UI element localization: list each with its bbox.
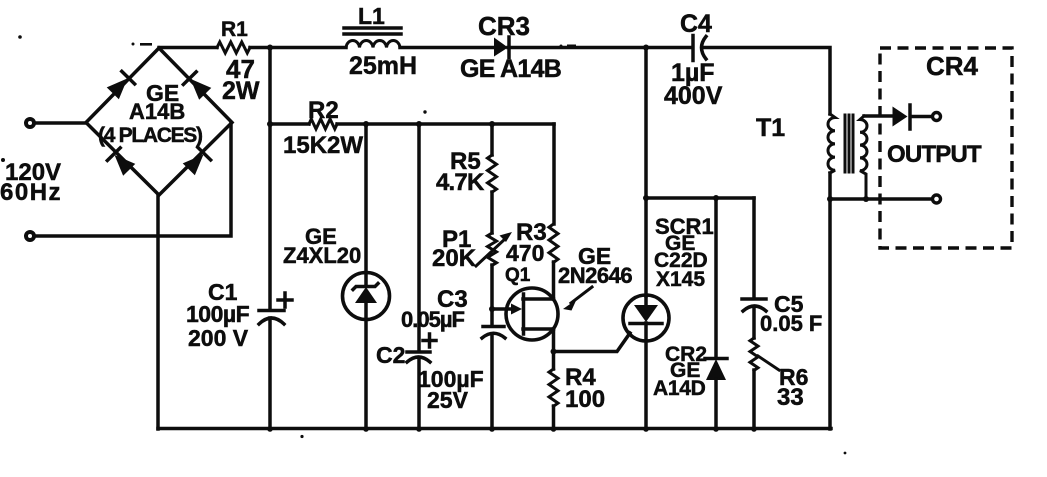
- scan speck: [844, 452, 847, 455]
- svg-text:4.7K: 4.7K: [436, 169, 485, 196]
- bridge diode bottom-right: [182, 147, 210, 175]
- svg-text:OUTPUT: OUTPUT: [887, 141, 982, 168]
- node junctions bottom rail: [267, 426, 273, 432]
- scan speck: [567, 45, 576, 47]
- inductor L1 25mH: [346, 40, 400, 47]
- scan speck: [300, 435, 303, 438]
- thyristor SCR1 GE C22D X145: [623, 295, 669, 341]
- svg-text:15K2W: 15K2W: [283, 132, 363, 159]
- wire: [552, 262, 556, 299]
- svg-text:2N2646: 2N2646: [558, 263, 632, 288]
- svg-text:R2: R2: [308, 97, 339, 124]
- svg-text:20K: 20K: [432, 245, 477, 272]
- scan speck: [18, 35, 22, 39]
- svg-text:Z4XL20: Z4XL20: [283, 243, 361, 268]
- wire: [250, 46, 346, 50]
- wire input bottom to bridge right vertex: [34, 123, 231, 236]
- svg-text:A14D: A14D: [653, 377, 706, 400]
- wire: [337, 122, 554, 126]
- svg-text:25V: 25V: [427, 387, 469, 413]
- svg-text:R1: R1: [221, 18, 248, 41]
- dashed enclosure CR4 output: [880, 48, 1012, 248]
- output terminal minus: [933, 195, 941, 203]
- zener diode GE Z4XL20: [343, 273, 390, 320]
- wire transformer left leg down to ground rail: [828, 173, 832, 429]
- node junction output return: [827, 196, 833, 202]
- scan speck: [140, 43, 152, 46]
- svg-text:0.05µF: 0.05µF: [401, 307, 464, 332]
- bridge diode bottom-left: [107, 148, 135, 176]
- svg-text:L1: L1: [358, 3, 385, 29]
- node junction top rail x270: [267, 45, 273, 51]
- node junction snubber rail: [643, 195, 649, 201]
- svg-text:60Hz: 60Hz: [0, 179, 62, 206]
- svg-text:Q1: Q1: [505, 265, 531, 286]
- transistor Q1 GE 2N2646 unijunction: [506, 288, 558, 340]
- capacitor C1 100uF 200V: [259, 309, 284, 313]
- input terminal bottom: [26, 232, 34, 240]
- scan speck: [560, 45, 563, 48]
- potentiometer P1 20K: [488, 233, 497, 265]
- capacitor C3 0.05uF: [483, 325, 504, 329]
- bridge diode top-left: [106, 71, 134, 99]
- wire trigger to SCR gate: [554, 333, 631, 352]
- svg-text:C4: C4: [680, 10, 712, 38]
- wire: [400, 46, 493, 50]
- output terminal plus: [933, 113, 941, 121]
- svg-text:200 V: 200 V: [188, 325, 249, 351]
- svg-text:100µF: 100µF: [186, 301, 250, 327]
- svg-text:GE A14B: GE A14B: [460, 55, 561, 83]
- node junction emitter: [489, 306, 495, 312]
- wire base1 down: [552, 329, 556, 369]
- bridge diode top-right: [183, 72, 211, 100]
- wire SCR anode branch x646: [644, 48, 648, 297]
- wire zener branch x366: [364, 124, 368, 285]
- wire output bottom: [830, 197, 931, 201]
- scan speck: [1, 158, 5, 162]
- node junction y124 x366: [363, 121, 369, 127]
- svg-text:400V: 400V: [664, 82, 723, 110]
- wire: [490, 265, 494, 326]
- svg-text:C2: C2: [376, 342, 405, 368]
- wire: [490, 192, 494, 233]
- ground rail bottom: [158, 427, 831, 431]
- node junction trigger: [551, 349, 557, 355]
- wire top rail segments: [159, 46, 217, 50]
- diode CR4: [893, 107, 908, 127]
- node junction top rail x646: [643, 45, 649, 51]
- wire CR2 branch x716: [714, 198, 718, 358]
- scan speck: [132, 43, 135, 46]
- transformer T1 secondary winding: [860, 116, 867, 199]
- transformer T1 primary winding: [828, 114, 835, 173]
- pointer arrow to Q1: [571, 287, 592, 303]
- resistor R2 15K 2W: [309, 119, 337, 129]
- diode CR2 GE A14D: [705, 357, 727, 361]
- resistor R6 33: [750, 338, 758, 370]
- wire left rail x270 from top rail down: [268, 48, 272, 310]
- svg-text:A14B: A14B: [129, 99, 185, 124]
- wire top rail right of C4: [704, 48, 830, 115]
- capacitor C2 100uF 25V: [407, 350, 430, 354]
- svg-text:470: 470: [506, 240, 544, 266]
- wire input top to bridge left vertex: [34, 121, 86, 125]
- wire: [508, 46, 691, 50]
- svg-text:0.05 F: 0.05 F: [760, 311, 822, 336]
- wire C5 R6 branch x754: [752, 198, 756, 298]
- resistor R1: [217, 42, 250, 53]
- wire secondary top to CR4: [864, 114, 893, 118]
- svg-text:T1: T1: [756, 114, 785, 142]
- wire snubber rail y198: [646, 196, 754, 200]
- node junction x270 y124: [267, 121, 273, 127]
- wire R3 branch x553: [552, 124, 556, 224]
- capacitor C5 0.05uF: [742, 297, 766, 301]
- resistor R3 470: [549, 224, 558, 262]
- svg-text:(4 PLACES): (4 PLACES): [98, 124, 202, 147]
- capacitor C4 1uF 400V: [691, 36, 695, 61]
- wire: [752, 370, 756, 429]
- wire R2 rail y124: [270, 122, 309, 126]
- node junction x716 y198: [713, 195, 719, 201]
- wire R5 branch x492: [490, 124, 494, 155]
- svg-text:CR3: CR3: [478, 11, 530, 41]
- wire: [552, 406, 556, 429]
- resistor R4 100: [549, 369, 558, 406]
- wire bridge bottom vertex down to ground rail: [156, 195, 160, 429]
- input terminal top: [26, 119, 34, 127]
- diode CR3 GE A14B: [494, 38, 508, 57]
- svg-text:33: 33: [777, 384, 804, 411]
- node junction y124 x492: [489, 121, 495, 127]
- bridge rectifier diamond GE A14B: [86, 48, 232, 195]
- transformer core: [845, 115, 853, 172]
- svg-text:25mH: 25mH: [349, 52, 417, 80]
- svg-text:X145: X145: [656, 268, 705, 291]
- svg-text:CR4: CR4: [926, 51, 979, 81]
- wire C2 branch x419: [417, 124, 421, 351]
- resistor R5 4.7K: [488, 155, 497, 192]
- node junction y124 x419: [416, 121, 422, 127]
- scan speck: [423, 110, 426, 113]
- svg-text:100: 100: [565, 386, 605, 413]
- svg-text:2W: 2W: [222, 77, 260, 105]
